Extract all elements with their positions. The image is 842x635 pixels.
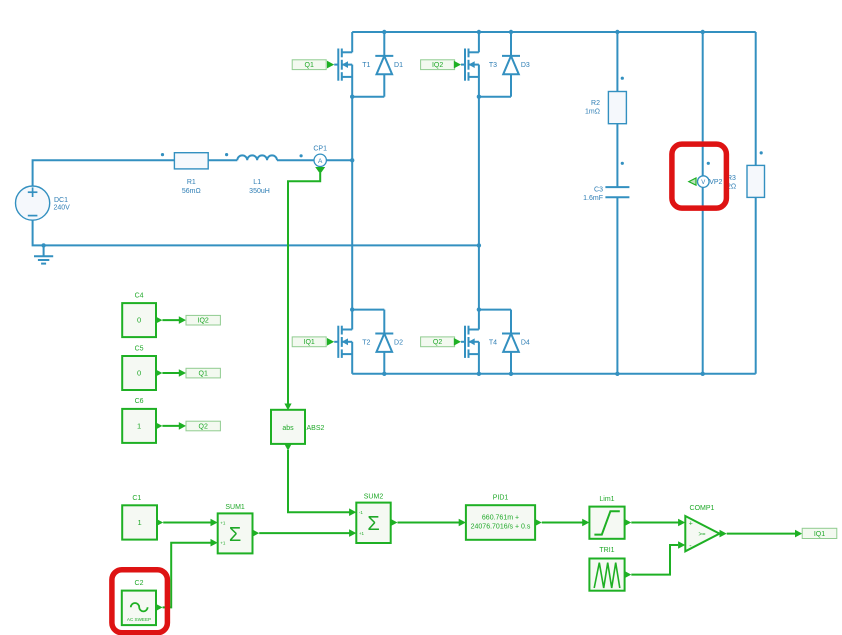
wire R2 branch top (616, 32, 618, 92)
constant block C1 (122, 505, 157, 539)
transistor T2 (334, 326, 352, 374)
wire Lim1 to COMP1 (624, 519, 685, 527)
wire leg2 mid (478, 97, 480, 310)
voltage source DC1 (15, 186, 49, 220)
diode D3 (502, 32, 520, 97)
svg-text:Σ: Σ (367, 513, 379, 535)
transistor T4 (461, 326, 479, 374)
resistor R3 (747, 165, 765, 197)
constant block C6 (122, 409, 156, 443)
wire ABS2 to SUM2 (284, 444, 356, 516)
wire T3-D3 node (479, 96, 511, 98)
wire PID1 to Lim1 (535, 519, 590, 527)
svg-text:>=: >= (698, 532, 706, 538)
wire C3 to bottom rail (616, 197, 618, 374)
summer SUM2 (356, 503, 390, 543)
svg-text:CP1: CP1 (313, 146, 327, 153)
svg-text:Σ: Σ (229, 524, 241, 546)
svg-text:C6: C6 (135, 398, 144, 405)
svg-text:Q1: Q1 (305, 62, 314, 69)
voltmeter VP2 (689, 176, 709, 188)
svg-text:A: A (318, 158, 323, 165)
svg-text:660.761m +: 660.761m + (482, 514, 519, 521)
svg-text:COMP1: COMP1 (690, 505, 715, 512)
wire C6 to tag Q2 (155, 422, 186, 430)
node leg1 junctions (350, 95, 354, 312)
ammeter CP1 (314, 154, 326, 166)
wire T1 drain (351, 32, 353, 52)
limiter Lim1 (589, 507, 624, 539)
summer SUM1 (218, 513, 253, 553)
label R1 56m&#937; (182, 179, 201, 195)
highlight box around VP2 (672, 144, 727, 208)
wire SUM2 to PID1 (390, 519, 466, 527)
svg-text:IQ2: IQ2 (198, 318, 209, 325)
svg-text:abs: abs (282, 425, 294, 432)
svg-text:T2: T2 (362, 339, 370, 346)
svg-text:C4: C4 (135, 292, 144, 299)
wire T2 drain (351, 310, 353, 330)
polarity dots (161, 77, 763, 165)
wire C1 to SUM1 (156, 519, 218, 527)
label C3 1.6mF (583, 187, 603, 203)
inductor L1 (237, 155, 277, 160)
tag IQ1 (gate of T2) (292, 337, 334, 347)
capacitor C3 (605, 187, 629, 197)
svg-text:R1: R1 (187, 179, 196, 186)
svg-text:D2: D2 (394, 339, 403, 346)
svg-text:C3: C3 (594, 187, 603, 194)
tag Q1 (gate of T1) (292, 60, 334, 70)
label L1 350uH (249, 179, 270, 195)
wire CP1 measurement to ABS2 (284, 167, 325, 410)
tag Q2 (gate of T4) (421, 337, 461, 347)
label R3 2&#937; (727, 175, 736, 191)
svg-text:AC SWEEP: AC SWEEP (127, 617, 151, 622)
svg-text:IQ2: IQ2 (432, 62, 443, 69)
diode D4 (502, 310, 520, 374)
svg-text:SUM1: SUM1 (225, 504, 245, 511)
svg-text:IQ1: IQ1 (814, 531, 825, 538)
tag Q2 (186, 421, 220, 431)
tag IQ2 (gate of T3) (421, 60, 461, 70)
svg-text:V: V (701, 180, 705, 186)
wire C2 to SUM1 (155, 539, 217, 611)
wire R3 branch bottom (755, 197, 757, 373)
wire R3 branch top (755, 32, 757, 165)
transistor T1 (334, 49, 352, 97)
svg-text:+: + (689, 520, 693, 527)
svg-text:L1: L1 (253, 179, 261, 186)
diode D1 (375, 32, 393, 97)
svg-text:D3: D3 (521, 62, 530, 69)
svg-text:C1: C1 (132, 495, 141, 502)
svg-text:C2: C2 (135, 580, 144, 587)
svg-text:D1: D1 (394, 62, 403, 69)
block ABS2 (271, 410, 305, 444)
tag IQ2 (186, 315, 220, 325)
node leg2 junctions (477, 95, 481, 312)
svg-text:0: 0 (137, 369, 141, 378)
svg-text:1: 1 (138, 518, 142, 527)
wire leg1 mid (351, 97, 353, 310)
tag Q1 (186, 368, 220, 378)
svg-text:0: 0 (137, 316, 141, 325)
svg-text:240V: 240V (54, 205, 71, 212)
wire COMP1 to tag IQ1 (720, 530, 803, 538)
svg-text:Lim1: Lim1 (599, 496, 614, 503)
wire T3 drain (478, 32, 480, 52)
diode D2 (375, 310, 393, 374)
wire T4 drain (478, 310, 480, 330)
svg-text:DC1: DC1 (54, 197, 68, 204)
wire top rail (352, 31, 756, 33)
svg-text:56mΩ: 56mΩ (182, 188, 201, 195)
comparator COMP1 (685, 516, 719, 551)
ground (34, 245, 53, 263)
svg-text:T3: T3 (489, 62, 497, 69)
svg-text:+1: +1 (359, 531, 365, 536)
wire DC1 to bridge (top path) (33, 160, 238, 186)
wire T1-D1 node (352, 96, 384, 98)
svg-text:-1: -1 (359, 510, 363, 515)
label R2 1m&#937; (585, 100, 600, 116)
constant block C4 (122, 303, 156, 337)
svg-text:Q2: Q2 (199, 423, 208, 430)
tag IQ1 (output) (802, 528, 837, 538)
wire C4 to tag IQ2 (155, 316, 186, 324)
wire TRI1 to COMP1 (624, 541, 685, 578)
svg-text:350uH: 350uH (249, 188, 270, 195)
svg-text:1.6mF: 1.6mF (583, 195, 603, 202)
svg-text:Q1: Q1 (199, 371, 208, 378)
svg-text:IQ1: IQ1 (304, 339, 315, 346)
svg-text:+1: +1 (220, 520, 226, 525)
svg-text:1: 1 (137, 421, 141, 430)
wire VP2 branch (702, 32, 704, 374)
wire SUM1 to SUM2 (252, 529, 356, 537)
svg-text:T1: T1 (362, 62, 370, 69)
svg-text:ABS2: ABS2 (307, 425, 325, 432)
node top rail junctions (382, 30, 705, 34)
svg-text:D4: D4 (521, 339, 530, 346)
svg-text:PID1: PID1 (493, 494, 509, 501)
svg-text:C5: C5 (135, 345, 144, 352)
svg-text:R2: R2 (591, 100, 600, 107)
resistor R1 (174, 153, 208, 169)
svg-text:SUM2: SUM2 (364, 493, 384, 500)
svg-text:+1: +1 (220, 541, 226, 546)
svg-text:24076.7016/s + 0.s: 24076.7016/s + 0.s (471, 524, 531, 531)
label DC1 240V (54, 197, 71, 212)
svg-text:T4: T4 (489, 339, 497, 346)
constant block C5 (122, 356, 156, 390)
wire C5 to tag Q1 (155, 369, 186, 377)
svg-text:Q2: Q2 (433, 339, 442, 346)
wire T4-D4 node (479, 309, 511, 311)
node ground junction (41, 243, 45, 247)
resistor R2 (608, 92, 626, 124)
svg-text:TRI1: TRI1 (599, 547, 614, 554)
node bottom rail junctions (382, 372, 705, 376)
sine source C2 (AC SWEEP) (122, 591, 156, 626)
highlight box around C2 (112, 570, 167, 633)
wire bottom rail (352, 373, 756, 375)
svg-text:1mΩ: 1mΩ (585, 109, 600, 116)
wire DC1 to bridge (bottom path) (33, 220, 479, 245)
triangle generator TRI1 (589, 559, 624, 591)
svg-text:VP2: VP2 (709, 179, 722, 186)
wire R2 to C3 (616, 124, 618, 187)
transistor T3 (461, 49, 479, 97)
controller PID1 (466, 505, 535, 540)
wire T2-D2 node (352, 309, 384, 311)
